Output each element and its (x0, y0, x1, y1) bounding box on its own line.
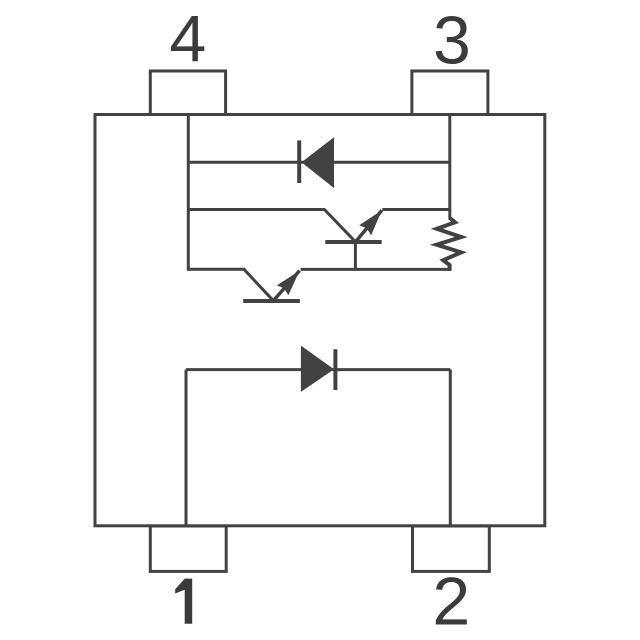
wire: pin4 vertical bus (187, 115, 190, 271)
transistor Q1 collector wire (188, 210, 355, 242)
pin 1 pad (150, 526, 226, 571)
wire: LED right vertical to pin2 (449, 370, 452, 526)
pin 2 pad (413, 526, 490, 571)
pin label 1 (175, 579, 192, 624)
wire: LED left vertical to pin1 (185, 370, 188, 526)
transistor Q1 emitter line with arrow (356, 210, 382, 241)
svg-text:2: 2 (432, 564, 470, 640)
transistor Q2 emitter line with arrow (273, 271, 299, 301)
photodiode D1 cathode bar (297, 140, 301, 183)
svg-text:4: 4 (169, 1, 206, 75)
wire: LED top horizontal (186, 368, 450, 371)
pin 4 pad (150, 71, 225, 115)
pin 3 pad (412, 71, 488, 115)
transistor Q1 emitter arrowhead (359, 210, 382, 235)
LED D2 cathode bar (333, 349, 337, 390)
resistor R1 zigzag (437, 218, 462, 271)
wire: pin3 vertical down to resistor top (448, 115, 451, 220)
photodiode D1 triangle (pointing left) (302, 137, 335, 188)
transistor Q1 base lead down (354, 242, 357, 269)
transistor Q2 collector wire (188, 269, 273, 300)
transistor Q2 base bar (243, 299, 300, 303)
svg-text:3: 3 (433, 3, 471, 79)
wire: Q2 emitter line to resistor bottom (301, 268, 450, 271)
package body (95, 115, 545, 526)
wire: Q1 emitter to pin3 bus (382, 208, 449, 211)
transistor Q1 base bar (325, 240, 381, 244)
transistor Q2 emitter arrowhead (277, 271, 300, 296)
wire: photodiode horizontal (pin4 to pin3) (188, 161, 450, 164)
LED D2 triangle (pointing right) (301, 346, 334, 392)
